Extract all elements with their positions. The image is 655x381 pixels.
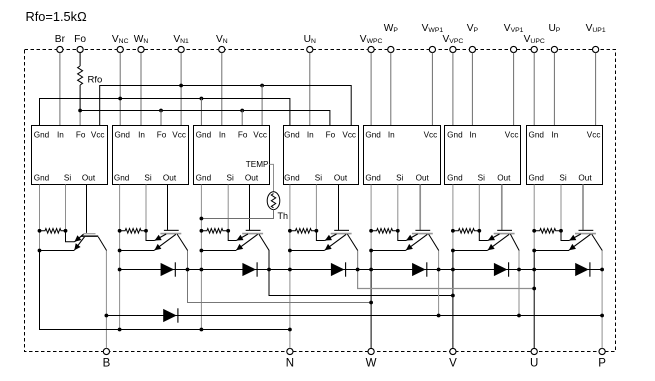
node Q4 emitter sense on rail — [288, 249, 292, 253]
svg-text:Gnd: Gnd — [365, 131, 381, 140]
terminal V — [449, 348, 457, 369]
op-amp/driver IC U1 — [32, 126, 108, 185]
module outline dashed border — [25, 50, 616, 352]
node Q2 emitter sense on rail — [118, 249, 122, 253]
svg-text:Vcc: Vcc — [424, 131, 438, 140]
svg-text:Si: Si — [396, 174, 403, 183]
wire U3 Vcc pin — [261, 86, 263, 126]
svg-text:Gnd: Gnd — [114, 131, 130, 140]
node Q3 emitter sense on rail — [200, 249, 204, 253]
wire U3 Gnd rail — [200, 185, 202, 330]
node Q6 emitter sense on rail — [451, 249, 455, 253]
svg-text:P: P — [598, 358, 606, 370]
wire U3 Fo pin — [241, 111, 243, 126]
svg-text:Si: Si — [478, 174, 485, 183]
wire Rfo to U1 Fo pin — [79, 111, 81, 126]
svg-text:In: In — [307, 131, 314, 140]
terminal VWP1 — [422, 23, 444, 53]
svg-text:Si: Si — [227, 174, 234, 183]
svg-text:Si: Si — [315, 174, 322, 183]
thermistor Th — [267, 192, 288, 221]
svg-text:Out: Out — [497, 174, 511, 183]
node U3 Gnd on Gnd bus — [200, 97, 204, 101]
svg-text:Vcc: Vcc — [342, 131, 356, 140]
node RG5 left on rail — [369, 229, 373, 233]
wire P bus from B through brake diode to P — [106, 315, 602, 317]
wire U6 Out pin down to gate — [501, 185, 503, 231]
node RG1 right / Si junction — [64, 229, 68, 233]
terminal UP — [548, 23, 560, 53]
wire thermistor to U3 Gnd rail — [201, 210, 273, 219]
terminal U — [530, 348, 538, 369]
node diode row at Q4 collector — [356, 268, 360, 272]
svg-text:Fo: Fo — [326, 131, 336, 140]
svg-text:Vcc: Vcc — [253, 131, 267, 140]
svg-text:W: W — [366, 358, 377, 370]
svg-text:Si: Si — [144, 174, 151, 183]
svg-text:In: In — [138, 131, 145, 140]
svg-text:Gnd: Gnd — [34, 174, 50, 183]
svg-text:In: In — [469, 131, 476, 140]
node diode row at rail U2 — [118, 268, 122, 272]
terminal Fo — [74, 34, 86, 53]
wire U3 TEMP output to thermistor Th — [270, 164, 274, 191]
node Fo bus junction — [78, 109, 82, 113]
node thermistor wire on U3 Gnd rail — [200, 217, 204, 221]
terminal VNC — [112, 34, 129, 53]
wire Q3 collector down and across to V — [269, 251, 453, 296]
wire Gnd bus (U1 Gnd to U4 Gnd) — [40, 99, 290, 126]
resistor RG7 (gate sense resistor) — [534, 229, 561, 234]
terminal WP — [384, 23, 399, 53]
diode D1 — [161, 262, 176, 276]
wire Q4 collector down and across to U — [358, 251, 535, 289]
svg-text:Rfo=1.5kΩ: Rfo=1.5kΩ — [26, 9, 88, 24]
wire U3 Si pin down — [227, 185, 229, 231]
terminal VN1 — [173, 34, 189, 53]
resistor Rfo — [78, 53, 103, 111]
svg-text:Vcc: Vcc — [587, 131, 601, 140]
node Q7 emitter sense on rail — [532, 249, 536, 253]
node N bus at rail U4/N — [288, 328, 292, 332]
svg-text:Gnd: Gnd — [528, 174, 544, 183]
svg-text:Gnd: Gnd — [196, 174, 212, 183]
terminal WN — [134, 34, 149, 53]
wire U6 Gnd rail — [452, 185, 454, 251]
wire U4 Si pin down — [315, 185, 317, 231]
node diode row at rail U4/N — [288, 268, 292, 272]
svg-text:Vcc: Vcc — [172, 131, 186, 140]
svg-text:Vcc: Vcc — [91, 131, 105, 140]
node RG4 left on rail — [288, 229, 292, 233]
wire freewheel diode row bus — [120, 269, 602, 271]
svg-text:Gnd: Gnd — [447, 174, 463, 183]
wire U2 Fo pin — [160, 111, 162, 126]
op-amp/driver IC U6 — [445, 126, 521, 185]
transistor Q1 (IGBT) — [40, 231, 107, 251]
wire Q1 collector down to terminal B — [105, 251, 107, 349]
svg-text:Out: Out — [245, 174, 259, 183]
diode D5 — [494, 262, 509, 276]
wire UP down to U7 In pin — [553, 53, 555, 126]
wire Fo bus (Rfo to U4 Fo) — [80, 111, 330, 126]
svg-text:Fo: Fo — [157, 131, 167, 140]
op-amp/driver IC U5 — [364, 126, 441, 185]
wire Vcc bus (U1 Vcc to U4 Vcc) — [100, 86, 352, 126]
svg-text:Br: Br — [55, 34, 66, 45]
wire VN down to U3 In pin — [221, 53, 223, 126]
node diode row at Q5 collector — [437, 268, 441, 272]
terminal P — [598, 348, 606, 369]
node diode row at Q6 collector — [517, 268, 521, 272]
svg-text:Gnd: Gnd — [365, 174, 381, 183]
svg-text:Gnd: Gnd — [196, 131, 212, 140]
svg-text:In: In — [219, 131, 226, 140]
node N bus at rail U2 — [118, 328, 122, 332]
terminal VN — [216, 34, 228, 53]
diode D3 — [331, 262, 346, 276]
wire U1 Out pin down to gate — [86, 185, 88, 233]
diode D7 (brake diode) — [163, 308, 178, 322]
svg-text:Gnd: Gnd — [114, 174, 130, 183]
wire U2 Si pin down — [145, 185, 147, 231]
node RG6 left on rail — [451, 229, 455, 233]
wire U6 Si pin down — [478, 185, 480, 231]
op-amp/driver IC U2 — [113, 126, 189, 185]
wire Q5 collector down to P bus — [438, 251, 440, 316]
wire VWPC down to U5 Gnd pin — [370, 53, 372, 126]
wire U4 Out pin down to gate — [338, 185, 340, 231]
wire U3 Out pin down to gate — [249, 185, 251, 231]
wire VUP1 down to U7 Vcc pin — [595, 53, 597, 126]
resistor RG1 (gate sense resistor) — [40, 229, 66, 234]
transistor Q3 (IGBT) — [201, 230, 269, 250]
wire U1 Si pin down — [65, 185, 67, 231]
op-amp/driver IC U4 — [284, 126, 359, 185]
node RG2 left on rail — [118, 229, 122, 233]
node P bus on B wire — [105, 314, 109, 318]
node Q4 collector bus on U — [532, 287, 536, 291]
node Q1 emitter sense on rail — [38, 249, 42, 253]
node diode row at V — [451, 268, 455, 272]
svg-text:Gnd: Gnd — [284, 174, 300, 183]
wire Q7 collector down to terminal P — [601, 251, 603, 349]
wire U7 Si pin down — [560, 185, 562, 231]
op-amp/driver IC U7 — [527, 126, 603, 185]
node diode row at W — [369, 268, 373, 272]
wire VVP1 down to U6 Vcc pin — [513, 53, 515, 126]
terminal VUP1 — [586, 23, 606, 53]
terminal N — [286, 348, 294, 369]
wire Br down to U1 In pin — [59, 53, 61, 126]
node Q3 collector bus on V — [451, 294, 455, 298]
diode D2 — [242, 262, 257, 276]
node VNC on Gnd bus — [118, 97, 122, 101]
node VN1 on Vcc bus — [179, 84, 183, 88]
wire U3 Gnd pin — [200, 99, 202, 126]
node Q5 emitter sense on rail — [369, 249, 373, 253]
node RG1 left on rail — [38, 229, 42, 233]
svg-text:In: In — [388, 131, 395, 140]
wire Q2 collector down and across to W — [188, 251, 372, 303]
svg-text:Si: Si — [64, 174, 71, 183]
wire U5 Out pin down to gate — [419, 185, 421, 231]
svg-text:Rfo: Rfo — [88, 75, 103, 86]
wire U5 Si pin down — [397, 185, 399, 231]
terminal VP — [467, 23, 479, 53]
node Q2 collector bus on W — [369, 301, 373, 305]
svg-text:Gnd: Gnd — [447, 131, 463, 140]
svg-text:In: In — [551, 131, 558, 140]
diode D4 — [412, 262, 427, 276]
node U2 Fo on Fo bus — [159, 109, 163, 113]
node N bus at rail U3 — [200, 328, 204, 332]
wire N bus connecting emitter rails — [40, 251, 290, 330]
node RG7 right / Si junction — [559, 229, 563, 233]
terminal VVP1 — [504, 23, 524, 53]
transistor Q7 (IGBT) — [534, 230, 602, 250]
wire UN down to U4 In pin — [309, 53, 311, 126]
wire U2 Gnd rail — [119, 185, 121, 330]
svg-text:Fo: Fo — [76, 131, 86, 140]
terminal W — [366, 348, 377, 369]
node diode row at Q2 collector — [186, 268, 190, 272]
svg-text:Out: Out — [578, 174, 592, 183]
transistor Q2 (IGBT) — [120, 230, 188, 250]
wire WP down to U5 In pin — [390, 53, 392, 126]
svg-text:Th: Th — [278, 211, 289, 221]
svg-text:Out: Out — [82, 174, 96, 183]
node diode row at U — [532, 268, 536, 272]
node RG4 right / Si junction — [315, 229, 319, 233]
wire VWP1 down to U5 Vcc pin — [431, 53, 433, 126]
wire VUPC down to U7 Gnd pin — [533, 53, 535, 126]
node Q5 collector on P bus — [437, 314, 441, 318]
svg-text:Out: Out — [163, 174, 177, 183]
node RG6 right / Si junction — [477, 229, 481, 233]
node diode row at rail U3 — [200, 268, 204, 272]
resistor RG2 (gate sense resistor) — [120, 229, 146, 234]
terminal VWPC — [360, 34, 383, 53]
wire VVPC down to U6 Gnd pin — [452, 53, 454, 126]
svg-text:Out: Out — [416, 174, 430, 183]
svg-text:In: In — [57, 131, 64, 140]
wire U5 Gnd rail — [370, 185, 372, 251]
svg-text:Gnd: Gnd — [528, 131, 544, 140]
wire Q6 collector down to P bus — [518, 251, 520, 316]
terminal Br — [55, 34, 66, 53]
node RG5 right / Si junction — [396, 229, 400, 233]
node RG3 right / Si junction — [226, 229, 230, 233]
node Q7 collector on diode row — [600, 268, 604, 272]
resistor RG3 (gate sense resistor) — [201, 229, 228, 234]
node Q6 collector on P bus — [517, 314, 521, 318]
svg-text:Si: Si — [559, 174, 566, 183]
svg-text:Out: Out — [334, 174, 348, 183]
node RG3 left on rail — [200, 229, 204, 233]
svg-text:V: V — [449, 358, 457, 370]
terminal B — [103, 348, 111, 369]
wire WN down to U2 In pin — [140, 53, 142, 126]
wire VN1 down to U2 Vcc pin — [180, 53, 182, 126]
svg-text:U: U — [530, 358, 538, 370]
node Q7 collector on P bus — [600, 314, 604, 318]
node RG2 right / Si junction — [144, 229, 148, 233]
terminal VUPC — [524, 34, 545, 53]
wire U1 Gnd rail — [39, 185, 41, 330]
transistor Q4 (IGBT) — [290, 230, 358, 250]
wire VP down to U6 In pin — [471, 53, 473, 126]
wire U4 Gnd rail — [289, 185, 291, 349]
resistor RG4 (gate sense resistor) — [290, 229, 317, 234]
transistor Q5 (IGBT) — [371, 230, 439, 250]
resistor RG6 (gate sense resistor) — [453, 229, 479, 234]
svg-text:Gnd: Gnd — [284, 131, 300, 140]
terminal VVPC — [443, 34, 464, 53]
wire U7 Out pin down to gate — [582, 185, 584, 231]
wire U7 Gnd rail — [533, 185, 535, 251]
op-amp/driver IC U3 — [194, 126, 270, 185]
diode D6 — [575, 262, 590, 276]
wire VNC down to U2 Gnd pin — [119, 53, 121, 126]
resistor RG5 (gate sense resistor) — [371, 229, 398, 234]
svg-text:Fo: Fo — [74, 34, 86, 45]
svg-text:Fo: Fo — [238, 131, 248, 140]
svg-text:N: N — [286, 358, 294, 370]
node RG7 left on rail — [532, 229, 536, 233]
terminal UN — [304, 34, 316, 53]
wire U2 Out pin down to gate — [167, 185, 169, 231]
transistor Q6 (IGBT) — [453, 230, 519, 250]
node U3 Fo on Fo bus — [240, 109, 244, 113]
node U3 Vcc on Vcc bus — [260, 84, 264, 88]
svg-text:Vcc: Vcc — [505, 131, 519, 140]
svg-text:TEMP: TEMP — [246, 160, 269, 169]
svg-text:B: B — [103, 358, 111, 370]
node diode row at Q3 collector — [267, 268, 271, 272]
svg-text:Gnd: Gnd — [34, 131, 50, 140]
